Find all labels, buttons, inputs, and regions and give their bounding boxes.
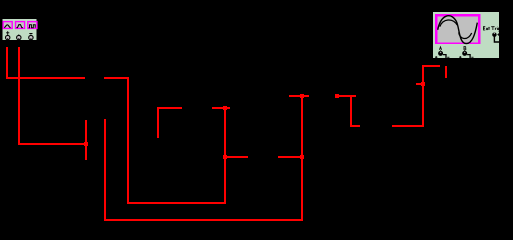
wire: top horizontal rail from FG+ to node at x85 [6,77,85,79]
wire: vertical x127 y77-204 [127,77,129,204]
oscilloscope XSC1 [433,12,501,59]
triangle button [16,22,25,29]
wire: bottom rail y219 [104,219,303,221]
wire: horizontal y108 x212-230 [212,107,230,109]
function generator XFG1 [2,19,37,41]
wire: vertical x301 y95-221 [301,95,303,221]
Ext Trig terminal [492,33,500,43]
wire: horizontal y126 x392-424 [392,125,424,127]
wire: vertical x350 y95-127 [350,95,352,127]
wire: FG common terminal down [18,47,20,145]
FG terminal - [29,34,33,39]
junction at (225,108) [223,106,227,110]
oscilloscope body [433,12,500,59]
FG terminal + [6,34,10,39]
sine trace main [438,16,478,44]
wire: horizontal y96 x336-356 [336,95,356,97]
junction at (302,96) [300,94,304,98]
wire: horizontal y157 x278-303 [278,156,303,158]
plus label FG [6,31,9,34]
wire: vertical segment x85 y120-160 [85,120,87,160]
scope terminal B [459,50,473,58]
sine trace inner hump arc [440,20,457,27]
junction at (302,157) [300,155,304,159]
wire: vertical x224 y106-204 [224,106,226,204]
junction at (337,96) [335,94,339,98]
wire: vertical x445 y66-78 scope A minus to ground [445,66,447,78]
junction at (423,84) [421,82,425,86]
sine button [3,22,12,29]
wire: vertical x422 y65-127 [422,65,424,127]
wire: horizontal y108 x157-182 [157,107,182,109]
wire: horizontal y203 x127-226 [127,202,226,204]
wire: long vertical x104 down to bottom rail [104,119,106,221]
Ext Trig label [483,27,499,32]
scope terminal A [435,50,449,58]
wire: horizontal y96 x289-309 [289,95,309,97]
wire: top horizontal x104-129 [104,77,129,79]
oscilloscope screen [435,14,480,44]
junction at (225,157) [223,155,227,159]
wire: horizontal from FG common to node at x85 [18,143,87,145]
A label [439,47,441,50]
junction at (86,144) [84,142,88,146]
wire: vertical x157 y107-138 [157,107,159,138]
B label [464,47,466,50]
FG terminal common [17,34,21,39]
wire: function generator + terminal down [6,47,8,79]
function generator body [2,19,37,41]
wire: horizontal y157 x224-248 [224,156,248,158]
wire: horizontal y66 x422-440 to scope A [422,65,440,67]
wire: horizontal y126 x350-360 [350,125,360,127]
minus label FG [29,33,32,34]
square button [28,22,37,29]
sine trace inner bowl arc [459,32,472,38]
wire: stub y84 x416-424 [416,83,424,85]
